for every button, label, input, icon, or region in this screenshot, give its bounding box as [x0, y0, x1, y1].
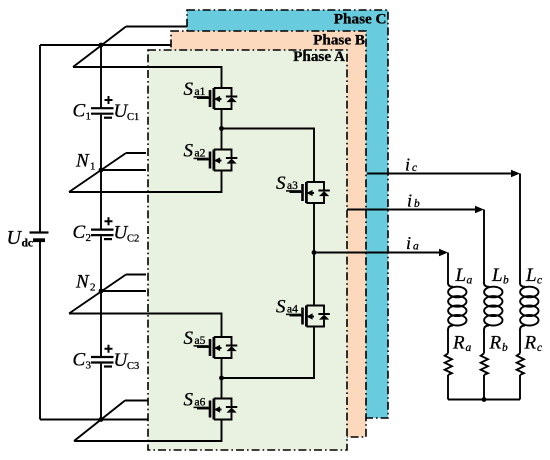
wire branch b top — [483, 210, 485, 284]
wire ic output — [367, 155, 520, 178]
svg-text:2: 2 — [90, 282, 96, 294]
transistor Sa3 — [276, 173, 330, 203]
svg-text:dc: dc — [22, 238, 34, 250]
transistor Sa2 — [184, 141, 238, 171]
wire ia output — [314, 233, 448, 256]
wire top diagonal — [73, 27, 126, 68]
inductor Lc — [520, 265, 542, 330]
svg-text:i: i — [406, 233, 411, 253]
svg-text:R: R — [452, 333, 465, 354]
svg-text:C: C — [73, 101, 86, 122]
svg-text:a: a — [466, 342, 472, 354]
wire Sa1 source to J1 to Sa2 drain — [221, 109, 223, 150]
wire N2 stub mid — [101, 290, 146, 292]
wire branch b mid — [483, 329, 485, 353]
wire bottom diagonal — [74, 401, 125, 442]
node J2 — [219, 376, 224, 381]
wire Sa5 source to J2 — [221, 358, 223, 378]
wire N1 stub upper — [126, 152, 146, 154]
inductor La — [448, 265, 473, 330]
phase A box — [148, 48, 347, 450]
wire N1 to Sa2 source — [69, 171, 222, 193]
transistor Sa4 — [276, 297, 330, 327]
transistor Sa6 — [184, 390, 238, 420]
wire left bus lower — [39, 242, 41, 420]
wire branch a mid — [447, 329, 449, 353]
wire Sa6 source down — [221, 420, 223, 442]
wire branch a bottom — [447, 375, 449, 400]
svg-text:c: c — [412, 162, 417, 174]
transistor Sa5 — [184, 328, 238, 358]
node phase A output — [312, 250, 317, 255]
svg-text:L: L — [491, 265, 503, 286]
svg-text:C2: C2 — [127, 234, 139, 245]
svg-text:i: i — [407, 191, 412, 211]
resistor Ra — [445, 333, 472, 375]
svg-text:R: R — [489, 333, 502, 354]
svg-text:a: a — [413, 241, 419, 253]
svg-text:L: L — [455, 265, 467, 286]
wire Sa4 source to J2 — [222, 327, 315, 379]
svg-text:c: c — [537, 275, 542, 287]
wire J2 to Sa6 drain — [221, 378, 223, 399]
wire Sa3 source to Sa4 drain — [313, 203, 315, 306]
svg-text:2: 2 — [86, 232, 92, 244]
svg-text:S: S — [276, 173, 286, 194]
wire J1 to Sa3 drain — [222, 129, 315, 183]
wire DC+ into phase A — [73, 67, 222, 88]
svg-text:L: L — [525, 265, 537, 286]
node J1 — [219, 126, 224, 131]
svg-text:C: C — [73, 222, 86, 243]
svg-text:S: S — [184, 328, 194, 349]
node N1 — [75, 151, 103, 173]
svg-text:b: b — [503, 275, 509, 287]
svg-text:S: S — [184, 79, 194, 100]
wire branch c bottom — [519, 375, 521, 400]
node bottom junction — [99, 417, 104, 422]
wire capacitor string — [100, 45, 102, 420]
wire N2 diagonal — [69, 275, 126, 314]
svg-text:S: S — [184, 141, 194, 162]
node top junction — [99, 43, 104, 48]
svg-text:U: U — [7, 227, 23, 249]
phase B box — [171, 31, 366, 437]
wire N2 to Sa5 drain — [69, 314, 222, 338]
inductor Lb — [484, 265, 509, 330]
wire branch c mid — [519, 329, 521, 353]
wire DC- into phase A — [74, 420, 222, 442]
wire load neutral — [448, 399, 520, 401]
capacitor C2 — [73, 217, 140, 244]
capacitor C3 — [73, 345, 140, 372]
battery Udc — [7, 227, 49, 250]
svg-text:S: S — [184, 390, 194, 411]
svg-text:N: N — [75, 272, 90, 293]
wire left bus upper — [39, 45, 41, 232]
wire branch b bottom — [483, 375, 485, 400]
svg-text:C1: C1 — [127, 112, 139, 123]
phase C box — [187, 10, 388, 418]
wire stub to phase C — [126, 26, 187, 28]
wire stub to phase B — [101, 44, 171, 46]
svg-text:R: R — [524, 333, 537, 354]
wire bottom bus left — [40, 419, 148, 421]
wire branch c top — [519, 174, 521, 284]
svg-text:b: b — [414, 198, 420, 210]
wire N2 stub upper — [126, 274, 146, 276]
wire branch a top — [447, 253, 449, 284]
wire N1 stub mid — [101, 169, 146, 171]
svg-text:Phase C: Phase C — [334, 11, 387, 28]
svg-text:C3: C3 — [127, 361, 139, 372]
svg-text:b: b — [502, 342, 508, 354]
node load neutral — [482, 397, 487, 402]
wire N1 diagonal — [69, 153, 126, 192]
wire bottom stub upper — [125, 400, 148, 402]
svg-text:1: 1 — [86, 111, 92, 123]
wire top bus — [40, 44, 101, 46]
svg-text:Phase B: Phase B — [313, 32, 365, 49]
svg-text:Phase A: Phase A — [293, 48, 345, 65]
transistor Sa1 — [184, 79, 238, 109]
svg-text:N: N — [75, 151, 90, 172]
svg-text:S: S — [276, 297, 286, 318]
wire ib output — [347, 191, 484, 214]
node N2 — [75, 272, 103, 294]
svg-text:c: c — [537, 342, 542, 354]
capacitor C1 — [73, 96, 140, 123]
svg-text:C: C — [73, 350, 86, 371]
svg-text:i: i — [405, 155, 410, 175]
svg-text:a: a — [467, 275, 473, 287]
resistor Rb — [481, 333, 508, 375]
svg-text:1: 1 — [90, 161, 96, 173]
resistor Rc — [517, 333, 542, 375]
svg-text:3: 3 — [86, 360, 92, 372]
